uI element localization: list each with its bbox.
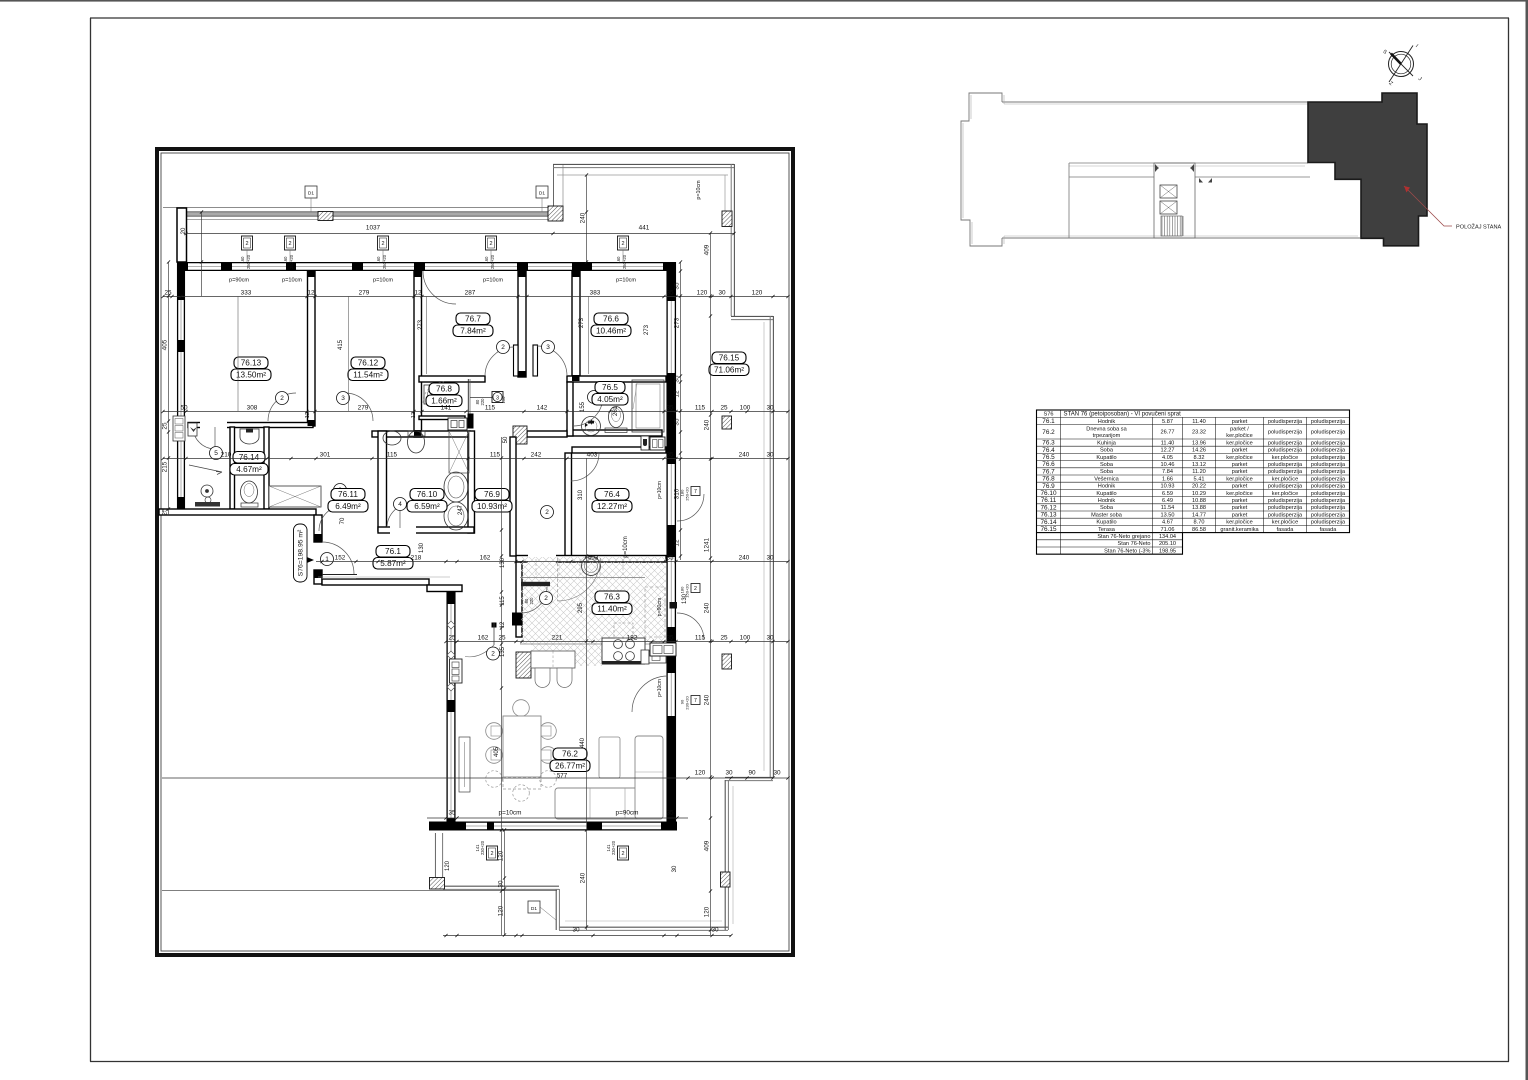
svg-text:273: 273 xyxy=(579,317,585,328)
svg-text:Hodnik: Hodnik xyxy=(1098,484,1116,490)
svg-text:poludisperzija: poludisperzija xyxy=(1311,512,1346,518)
svg-text:parket: parket xyxy=(1232,462,1248,468)
svg-text:162: 162 xyxy=(480,554,491,561)
svg-text:403: 403 xyxy=(587,451,598,458)
svg-text:76.14: 76.14 xyxy=(239,453,260,462)
svg-text:182: 182 xyxy=(627,634,638,641)
svg-text:76.5: 76.5 xyxy=(1042,454,1055,461)
svg-text:3: 3 xyxy=(546,344,550,351)
svg-text:150: 150 xyxy=(501,396,506,403)
svg-text:12: 12 xyxy=(673,539,680,547)
svg-text:230+20: 230+20 xyxy=(611,840,616,855)
svg-text:134.04: 134.04 xyxy=(1159,534,1176,540)
svg-text:12: 12 xyxy=(414,289,422,296)
svg-text:250+20: 250+20 xyxy=(289,254,294,269)
svg-text:76.9: 76.9 xyxy=(484,490,500,499)
svg-text:30: 30 xyxy=(773,770,781,777)
svg-text:76.7: 76.7 xyxy=(1042,468,1055,475)
svg-text:2: 2 xyxy=(288,241,291,247)
svg-text:10.46: 10.46 xyxy=(1161,462,1175,468)
svg-text:130: 130 xyxy=(500,557,506,568)
svg-text:13.88: 13.88 xyxy=(1192,505,1206,511)
svg-text:50: 50 xyxy=(503,436,509,443)
svg-text:261: 261 xyxy=(613,405,619,416)
svg-text:409: 409 xyxy=(703,840,710,851)
svg-text:Soba: Soba xyxy=(1100,505,1114,511)
svg-text:2: 2 xyxy=(621,241,624,247)
svg-text:poludisperzija: poludisperzija xyxy=(1268,462,1303,468)
svg-text:12: 12 xyxy=(305,412,311,418)
svg-text:120: 120 xyxy=(497,905,504,916)
svg-text:2: 2 xyxy=(544,595,548,602)
svg-text:poludisperzija: poludisperzija xyxy=(1268,505,1303,511)
svg-text:4.67: 4.67 xyxy=(1162,520,1173,526)
svg-text:76.7: 76.7 xyxy=(465,315,481,324)
svg-text:86.58: 86.58 xyxy=(1192,527,1206,533)
svg-text:parket: parket xyxy=(1232,512,1248,518)
svg-text:35: 35 xyxy=(666,634,674,641)
svg-text:ker.pločice: ker.pločice xyxy=(1226,455,1252,461)
svg-text:301: 301 xyxy=(320,451,331,458)
svg-text:76.11: 76.11 xyxy=(1041,497,1057,504)
svg-text:25: 25 xyxy=(161,422,168,430)
svg-text:poludisperzija: poludisperzija xyxy=(1311,498,1346,504)
svg-text:6.49: 6.49 xyxy=(1162,498,1173,504)
svg-text:poludisperzija: poludisperzija xyxy=(1311,505,1346,511)
svg-text:115: 115 xyxy=(485,404,496,411)
svg-text:1.66: 1.66 xyxy=(1162,476,1173,482)
svg-text:162: 162 xyxy=(478,634,489,641)
svg-text:ker.pločice: ker.pločice xyxy=(1226,520,1252,526)
svg-text:76.1: 76.1 xyxy=(385,547,401,556)
svg-text:10.93m²: 10.93m² xyxy=(477,502,507,511)
svg-text:205.10: 205.10 xyxy=(1159,541,1176,547)
svg-text:13.12: 13.12 xyxy=(1192,462,1206,468)
svg-text:30: 30 xyxy=(725,770,733,777)
svg-text:poludisperzija: poludisperzija xyxy=(1311,520,1346,526)
svg-text:ker.pločice: ker.pločice xyxy=(1272,491,1298,497)
svg-text:poludisperzija: poludisperzija xyxy=(1268,498,1303,504)
svg-text:Master soba: Master soba xyxy=(1091,512,1123,518)
svg-text:p=10cm: p=10cm xyxy=(483,278,503,284)
svg-text:5.87: 5.87 xyxy=(1162,419,1173,425)
svg-text:26.77: 26.77 xyxy=(1161,429,1175,435)
svg-text:310: 310 xyxy=(673,488,680,499)
svg-text:142: 142 xyxy=(537,404,548,411)
svg-text:STAN 76 (petoiposoban) - VI po: STAN 76 (petoiposoban) - VI povučeni spr… xyxy=(1064,412,1182,418)
svg-text:273: 273 xyxy=(418,319,424,330)
svg-text:11.54: 11.54 xyxy=(1161,505,1175,511)
svg-text:8.70: 8.70 xyxy=(1194,520,1205,526)
svg-text:p=90cm: p=90cm xyxy=(229,278,249,284)
svg-text:35: 35 xyxy=(666,404,674,411)
svg-text:poludisperzija: poludisperzija xyxy=(1268,448,1303,454)
svg-text:poludisperzija: poludisperzija xyxy=(1311,419,1346,425)
svg-text:383: 383 xyxy=(590,289,601,296)
svg-text:2: 2 xyxy=(490,851,493,857)
svg-text:120: 120 xyxy=(697,289,708,296)
svg-text:141: 141 xyxy=(441,404,452,411)
svg-text:76.2: 76.2 xyxy=(1042,429,1055,436)
svg-text:p=10cm: p=10cm xyxy=(373,278,393,284)
svg-text:115: 115 xyxy=(490,451,501,458)
svg-text:parket: parket xyxy=(1232,505,1248,511)
svg-text:30: 30 xyxy=(711,927,719,934)
svg-text:35: 35 xyxy=(666,451,674,458)
svg-text:14.77: 14.77 xyxy=(1192,512,1206,518)
svg-text:4.05m²: 4.05m² xyxy=(597,395,623,404)
svg-text:Soba: Soba xyxy=(1100,469,1114,475)
svg-text:35: 35 xyxy=(666,554,674,561)
svg-text:160: 160 xyxy=(283,256,288,264)
svg-text:parket: parket xyxy=(1232,419,1248,425)
svg-text:p=10cm: p=10cm xyxy=(623,536,629,558)
svg-text:poludisperzija: poludisperzija xyxy=(1311,440,1346,446)
svg-text:30: 30 xyxy=(766,404,774,411)
svg-text:130: 130 xyxy=(419,542,425,553)
svg-text:250+20: 250+20 xyxy=(685,487,690,501)
svg-text:ker.pločice: ker.pločice xyxy=(1226,476,1252,482)
svg-text:p=10cm: p=10cm xyxy=(696,180,702,200)
svg-text:7.84m²: 7.84m² xyxy=(460,327,486,336)
svg-text:12.27: 12.27 xyxy=(1161,448,1175,454)
svg-text:3: 3 xyxy=(341,395,345,402)
svg-text:2: 2 xyxy=(245,241,248,247)
svg-text:240: 240 xyxy=(703,419,710,430)
svg-text:409: 409 xyxy=(703,244,710,255)
svg-text:ker.pločice: ker.pločice xyxy=(1226,440,1252,446)
svg-text:155: 155 xyxy=(580,401,586,412)
svg-text:333: 333 xyxy=(241,289,252,296)
svg-text:250+20: 250+20 xyxy=(622,254,627,269)
svg-text:247: 247 xyxy=(458,504,464,515)
svg-text:parket: parket xyxy=(1232,448,1248,454)
svg-text:Kupatilo: Kupatilo xyxy=(1096,520,1116,526)
svg-text:76.9: 76.9 xyxy=(1042,483,1055,490)
svg-text:poludisperzija: poludisperzija xyxy=(1268,512,1303,518)
svg-text:135: 135 xyxy=(500,646,506,657)
svg-text:273: 273 xyxy=(644,324,650,335)
svg-text:25: 25 xyxy=(498,634,506,641)
svg-text:3: 3 xyxy=(496,396,499,402)
svg-text:granit.keramika: granit.keramika xyxy=(1220,527,1259,533)
svg-text:parket /: parket / xyxy=(1230,427,1249,433)
svg-text:Hodnik: Hodnik xyxy=(1098,498,1116,504)
svg-text:115: 115 xyxy=(500,596,506,606)
svg-text:10.29: 10.29 xyxy=(1192,491,1206,497)
svg-text:1037: 1037 xyxy=(366,225,381,232)
svg-text:240: 240 xyxy=(579,872,586,883)
svg-text:76.6: 76.6 xyxy=(1042,461,1055,468)
svg-text:35: 35 xyxy=(673,282,680,290)
svg-text:S76=198.95 m²: S76=198.95 m² xyxy=(298,529,305,576)
svg-text:240: 240 xyxy=(703,694,710,705)
svg-text:76.3: 76.3 xyxy=(1042,440,1055,447)
svg-text:100: 100 xyxy=(740,634,751,641)
svg-text:poludisperzija: poludisperzija xyxy=(1311,462,1346,468)
svg-text:5.87m²: 5.87m² xyxy=(380,559,406,568)
svg-text:152: 152 xyxy=(335,554,346,561)
svg-text:parket: parket xyxy=(1232,484,1248,490)
svg-text:25: 25 xyxy=(720,634,728,641)
svg-text:poludisperzija: poludisperzija xyxy=(1268,429,1303,435)
svg-text:ker.pločice: ker.pločice xyxy=(1226,433,1252,439)
svg-text:242: 242 xyxy=(531,451,542,458)
svg-text:poludisperzija: poludisperzija xyxy=(1268,440,1303,446)
svg-text:2: 2 xyxy=(694,586,697,592)
svg-text:30: 30 xyxy=(766,634,774,641)
svg-text:279: 279 xyxy=(359,289,370,296)
svg-text:35: 35 xyxy=(673,418,680,426)
svg-text:8.32: 8.32 xyxy=(1194,455,1205,461)
svg-text:13.50: 13.50 xyxy=(1161,512,1175,518)
svg-text:Stan 76-Neto (-3%: Stan 76-Neto (-3% xyxy=(1104,548,1150,554)
svg-text:11.40m²: 11.40m² xyxy=(597,605,627,614)
svg-text:76.15: 76.15 xyxy=(719,354,740,363)
svg-text:poludisperzija: poludisperzija xyxy=(1311,476,1346,482)
svg-text:76.4: 76.4 xyxy=(604,490,620,499)
svg-text:7: 7 xyxy=(694,698,697,704)
svg-text:4.67m²: 4.67m² xyxy=(236,465,262,474)
svg-text:120: 120 xyxy=(752,289,763,296)
svg-text:76.4: 76.4 xyxy=(1042,447,1055,454)
svg-text:120: 120 xyxy=(497,850,504,861)
svg-text:120: 120 xyxy=(703,906,710,917)
svg-text:71.06m²: 71.06m² xyxy=(714,366,744,375)
svg-text:120: 120 xyxy=(695,770,706,777)
svg-text:6.59: 6.59 xyxy=(1162,491,1173,497)
svg-text:76.10: 76.10 xyxy=(417,490,438,499)
svg-text:25: 25 xyxy=(720,404,728,411)
svg-text:4.05: 4.05 xyxy=(1162,455,1173,461)
svg-text:p=90cm: p=90cm xyxy=(616,810,639,817)
svg-text:70: 70 xyxy=(340,517,346,524)
svg-text:115: 115 xyxy=(695,404,706,411)
svg-text:p=10cm: p=10cm xyxy=(657,679,663,697)
svg-text:210: 210 xyxy=(221,451,232,458)
svg-text:198.95: 198.95 xyxy=(1159,548,1176,554)
svg-text:76.1: 76.1 xyxy=(1042,418,1055,425)
svg-text:20.22: 20.22 xyxy=(1192,484,1206,490)
svg-text:D1: D1 xyxy=(539,191,545,197)
svg-text:35: 35 xyxy=(666,810,674,817)
svg-text:90: 90 xyxy=(748,770,756,777)
svg-text:240: 240 xyxy=(739,451,750,458)
svg-text:fasada: fasada xyxy=(1277,527,1295,533)
svg-text:14.26: 14.26 xyxy=(1192,448,1206,454)
svg-text:240: 240 xyxy=(579,212,586,223)
svg-text:Dnevna soba sa: Dnevna soba sa xyxy=(1086,427,1127,433)
svg-text:76.13: 76.13 xyxy=(241,359,262,368)
svg-text:76.2: 76.2 xyxy=(562,750,578,759)
svg-text:20: 20 xyxy=(181,227,187,234)
svg-text:76.10: 76.10 xyxy=(1041,490,1057,497)
svg-text:220: 220 xyxy=(529,597,534,605)
svg-text:poludisperzija: poludisperzija xyxy=(1311,484,1346,490)
svg-text:23.32: 23.32 xyxy=(1192,429,1206,435)
svg-text:Kupatilo: Kupatilo xyxy=(1096,491,1116,497)
svg-text:6.59m²: 6.59m² xyxy=(414,502,440,511)
svg-text:Soba: Soba xyxy=(1100,448,1114,454)
svg-text:76.3: 76.3 xyxy=(604,593,620,602)
svg-text:12.27m²: 12.27m² xyxy=(597,502,627,511)
svg-text:287: 287 xyxy=(465,289,476,296)
svg-text:2: 2 xyxy=(621,851,624,857)
svg-text:50: 50 xyxy=(180,404,188,411)
svg-text:577: 577 xyxy=(557,773,568,780)
svg-text:25: 25 xyxy=(448,634,456,641)
svg-text:415: 415 xyxy=(338,339,344,350)
svg-text:76.5: 76.5 xyxy=(602,383,618,392)
svg-text:ker.pločice: ker.pločice xyxy=(1272,455,1298,461)
svg-text:Hodnik: Hodnik xyxy=(1098,419,1116,425)
svg-text:76.6: 76.6 xyxy=(603,315,619,324)
svg-text:p=10cm: p=10cm xyxy=(616,278,636,284)
svg-text:12: 12 xyxy=(307,289,315,296)
svg-text:71.06: 71.06 xyxy=(1161,527,1175,533)
svg-text:Vešernica: Vešernica xyxy=(1094,476,1119,482)
svg-text:5.41: 5.41 xyxy=(1194,476,1205,482)
svg-text:12: 12 xyxy=(411,412,417,418)
svg-text:30: 30 xyxy=(672,865,678,872)
svg-text:76.8: 76.8 xyxy=(436,385,452,394)
svg-text:4: 4 xyxy=(398,501,402,508)
svg-text:7.84: 7.84 xyxy=(1162,469,1173,475)
svg-text:240: 240 xyxy=(703,602,710,613)
svg-text:S76: S76 xyxy=(1044,412,1054,418)
svg-text:30: 30 xyxy=(718,289,726,296)
svg-text:308: 308 xyxy=(247,404,258,411)
svg-text:p=10cm: p=10cm xyxy=(499,810,522,817)
svg-text:30: 30 xyxy=(766,451,774,458)
svg-text:403: 403 xyxy=(588,554,599,561)
svg-text:11.40: 11.40 xyxy=(1192,419,1206,425)
svg-text:2: 2 xyxy=(381,241,384,247)
svg-text:2: 2 xyxy=(501,344,505,351)
svg-text:poludisperzija: poludisperzija xyxy=(1311,429,1346,435)
svg-text:ker.pločice: ker.pločice xyxy=(1272,476,1298,482)
svg-text:405: 405 xyxy=(494,746,500,757)
svg-text:poludisperzija: poludisperzija xyxy=(1311,469,1346,475)
svg-text:76.14: 76.14 xyxy=(1041,519,1057,526)
svg-text:240: 240 xyxy=(739,554,750,561)
svg-text:230+20: 230+20 xyxy=(685,696,690,710)
svg-text:218: 218 xyxy=(411,554,422,561)
svg-text:35: 35 xyxy=(448,810,456,817)
svg-text:76.8: 76.8 xyxy=(1042,476,1055,483)
svg-text:5: 5 xyxy=(214,450,218,457)
svg-text:250+20: 250+20 xyxy=(382,254,387,269)
svg-text:10.88: 10.88 xyxy=(1192,498,1206,504)
svg-text:poludisperzija: poludisperzija xyxy=(1268,484,1303,490)
svg-text:76.13: 76.13 xyxy=(1041,512,1057,519)
svg-text:30: 30 xyxy=(766,554,774,561)
svg-text:76.12: 76.12 xyxy=(1041,504,1057,511)
svg-text:11.20: 11.20 xyxy=(1192,469,1206,475)
svg-text:25: 25 xyxy=(161,508,168,516)
svg-text:76.12: 76.12 xyxy=(358,359,379,368)
svg-text:p=10cm: p=10cm xyxy=(657,481,663,499)
svg-text:250+20: 250+20 xyxy=(246,254,251,269)
svg-text:130: 130 xyxy=(682,593,688,604)
svg-text:279: 279 xyxy=(358,404,369,411)
svg-text:7: 7 xyxy=(694,489,697,495)
svg-text:Kuhinja: Kuhinja xyxy=(1097,440,1117,446)
svg-text:POLOŽAJ STANA: POLOŽAJ STANA xyxy=(1456,223,1502,231)
svg-text:30: 30 xyxy=(572,927,580,934)
svg-text:440: 440 xyxy=(580,737,586,748)
svg-text:115: 115 xyxy=(695,634,706,641)
svg-text:Stan 76-Neto: Stan 76-Neto xyxy=(1118,541,1151,547)
svg-text:Soba: Soba xyxy=(1100,462,1114,468)
svg-text:12: 12 xyxy=(500,621,506,628)
svg-text:poludisperzija: poludisperzija xyxy=(1311,491,1346,497)
svg-text:13.50m²: 13.50m² xyxy=(236,371,266,380)
svg-text:115: 115 xyxy=(387,451,398,458)
svg-text:parket: parket xyxy=(1232,498,1248,504)
svg-text:2: 2 xyxy=(545,509,549,516)
svg-text:160: 160 xyxy=(484,256,489,264)
svg-text:trpezarijom: trpezarijom xyxy=(1093,433,1121,439)
svg-text:441: 441 xyxy=(639,225,650,232)
svg-text:11.54m²: 11.54m² xyxy=(353,371,383,380)
svg-text:parket: parket xyxy=(1232,469,1248,475)
svg-text:p=10cm: p=10cm xyxy=(282,278,302,284)
svg-text:1: 1 xyxy=(325,556,329,563)
svg-text:215: 215 xyxy=(161,461,168,472)
svg-text:160: 160 xyxy=(616,256,621,264)
svg-text:fasada: fasada xyxy=(1320,527,1338,533)
svg-text:Kupatilo: Kupatilo xyxy=(1096,455,1116,461)
svg-text:273: 273 xyxy=(673,317,680,328)
svg-text:10.93: 10.93 xyxy=(1161,484,1175,490)
svg-text:120: 120 xyxy=(445,860,451,871)
svg-text:2: 2 xyxy=(280,395,284,402)
svg-text:12: 12 xyxy=(673,390,680,398)
svg-text:D1: D1 xyxy=(531,906,537,912)
svg-text:Terasa: Terasa xyxy=(1098,527,1116,533)
svg-text:405: 405 xyxy=(161,339,168,350)
svg-text:poludisperzija: poludisperzija xyxy=(1268,419,1303,425)
svg-text:76.15: 76.15 xyxy=(1041,526,1057,533)
svg-text:p=90cm: p=90cm xyxy=(657,598,663,617)
svg-text:D1: D1 xyxy=(308,191,314,197)
svg-text:poludisperzija: poludisperzija xyxy=(1311,455,1346,461)
svg-text:13.96: 13.96 xyxy=(1192,440,1206,446)
svg-text:poludisperzija: poludisperzija xyxy=(1268,469,1303,475)
svg-text:310: 310 xyxy=(578,489,584,500)
svg-text:6.49m²: 6.49m² xyxy=(335,502,361,511)
svg-text:11.40: 11.40 xyxy=(1161,440,1175,446)
svg-text:26.77m²: 26.77m² xyxy=(555,762,585,771)
svg-text:30: 30 xyxy=(497,880,504,888)
svg-text:230+20: 230+20 xyxy=(480,840,485,855)
svg-text:2: 2 xyxy=(489,241,492,247)
svg-text:ker.pločice: ker.pločice xyxy=(1226,491,1252,497)
svg-text:100: 100 xyxy=(740,404,751,411)
svg-text:295: 295 xyxy=(578,602,584,613)
svg-text:160: 160 xyxy=(376,256,381,264)
svg-text:ker.pločice: ker.pločice xyxy=(1272,520,1298,526)
svg-text:35: 35 xyxy=(673,375,680,383)
svg-text:221: 221 xyxy=(552,634,563,641)
svg-text:250+20: 250+20 xyxy=(490,254,495,269)
svg-text:poludisperzija: poludisperzija xyxy=(1311,448,1346,454)
svg-text:Stan 76-Neto grejano: Stan 76-Neto grejano xyxy=(1097,534,1150,540)
svg-text:2: 2 xyxy=(491,651,495,658)
svg-text:1241: 1241 xyxy=(703,537,710,552)
svg-text:10.46m²: 10.46m² xyxy=(596,327,626,336)
